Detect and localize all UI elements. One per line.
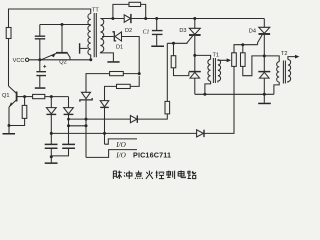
wire: Q1 emitter down — [8, 107, 10, 126]
transformer TT primary winding — [88, 14, 91, 60]
zener diode D1 — [102, 32, 139, 74]
resistor R7 — [165, 101, 170, 114]
svg-text:D3: D3 — [179, 28, 186, 34]
svg-text:PIC16C711: PIC16C711 — [133, 151, 171, 160]
ground (Q1 emitter) — [3, 133, 16, 135]
node: line1 dot — [85, 118, 88, 121]
capacitor C3 (electrolytic on VCC) — [36, 60, 46, 88]
capacitor C2 (Q2 base-emitter) — [35, 25, 45, 60]
transformer T1 primary — [208, 59, 211, 81]
node: main line left — [50, 132, 53, 135]
wire: emitter node to ground — [8, 126, 10, 134]
node: D4 gate resistor junction — [241, 43, 244, 46]
wire: TT secondary top to D2 anode rail — [100, 18, 124, 20]
transformer T2 secondary — [288, 60, 291, 83]
node: Q1 base junction — [23, 95, 26, 98]
node: T1 primary return — [203, 93, 206, 96]
thyristor D3 — [167, 19, 200, 72]
resistor R1 (top-left feedback) — [6, 28, 11, 39]
capacitor C5 — [51, 144, 75, 156]
wire: R2 to node A — [45, 96, 69, 98]
svg-text:T2: T2 — [281, 51, 288, 57]
ground (channel rail) — [258, 103, 271, 105]
wire: Q1 base line — [17, 96, 32, 98]
wire: D4 cathode to T2 primary top — [264, 56, 279, 62]
diode D10 — [197, 130, 204, 137]
node A: divider junction — [50, 95, 53, 98]
node: C1 top — [155, 17, 158, 20]
wire: T1 secondary output arrow — [218, 58, 231, 62]
wire: PIC main line — [51, 132, 196, 134]
zener diode D11 (D3 cathode) — [189, 72, 201, 95]
node: D2 anode — [111, 17, 114, 20]
caption: pulse ignition control circuit (CJK strokes) — [113, 170, 196, 178]
node: ground junction — [50, 155, 53, 158]
terminal: VCC input circle — [25, 58, 28, 61]
wire: anode rail D2 to D4 — [132, 18, 265, 20]
transformer T1 core — [213, 58, 215, 83]
resistor R2 (Q1 base series) — [33, 94, 45, 98]
node: Q2 base rail junction — [61, 23, 64, 26]
wire: T2 primary bottom return — [274, 82, 279, 94]
wire: channel rail — [195, 93, 274, 95]
resistor R6 — [105, 76, 140, 101]
node: Q1 emitter / R3 junction — [8, 124, 11, 127]
resistor R9 (D3 gate-cathode) — [171, 43, 189, 75]
capacitor C1 — [152, 19, 163, 46]
svg-text:VCC: VCC — [13, 58, 25, 64]
node: main line D6 — [103, 132, 106, 135]
wire: R8 top to D4 gate wire — [234, 45, 258, 53]
resistor R10 (D4 gate-cathode) — [241, 45, 265, 76]
node: D4 cathode — [263, 54, 266, 57]
diode D8 — [64, 97, 74, 144]
wire: Q2 base rail — [40, 24, 91, 26]
thyristor D4 — [258, 19, 271, 72]
transformer TT core — [94, 13, 96, 57]
svg-text:I/O: I/O — [115, 152, 126, 160]
node: line2 right — [85, 124, 88, 127]
node: line2 left — [67, 124, 70, 127]
wire: PIC line 2 short — [69, 125, 87, 127]
wire: D3 cathode to T1 primary top — [195, 55, 211, 59]
node: line1 start — [67, 118, 70, 121]
ground (C3) — [35, 87, 46, 89]
wire: R7 up to D3 gate — [166, 43, 168, 101]
node: R4 right — [144, 17, 147, 20]
resistor R8 (channel2 lower gate) — [232, 53, 237, 67]
node: VCC junction — [38, 58, 41, 61]
transformer TT secondary winding — [100, 19, 103, 53]
resistor R4 (parallel with D2) — [113, 2, 146, 18]
svg-text:Q1: Q1 — [2, 93, 9, 99]
node: TT primary bottom — [89, 58, 92, 61]
capacitor C4 — [45, 144, 58, 162]
diode D2 — [124, 14, 131, 23]
node: D1/R5/R6 junction — [138, 72, 141, 75]
transformer T2 core — [283, 61, 285, 84]
wire: PIC pin 2 — [86, 150, 137, 158]
svg-text:D2: D2 — [125, 28, 132, 34]
wire: D10 to channel2 gate riser — [205, 66, 235, 133]
transformer T2 primary — [277, 62, 280, 82]
wire: base junction down to R3 — [24, 97, 26, 106]
wire: PIC pin 1 — [105, 139, 138, 144]
wire: T2 secondary output arrow — [288, 55, 300, 60]
diode D7 — [46, 97, 56, 144]
zener diode D5 — [80, 92, 92, 157]
wire: T1 primary bottom return — [205, 81, 211, 94]
wire: PIC line 1 — [69, 118, 131, 120]
svg-text:D4: D4 — [249, 29, 256, 35]
svg-text:T1: T1 — [213, 53, 220, 59]
wire: VCC rail — [29, 59, 91, 61]
wire: R1 down to Q1 collector — [8, 39, 10, 87]
electrode bar on TT primary — [80, 43, 88, 54]
node: D3 anode — [193, 17, 196, 20]
node: D3 cathode — [193, 54, 196, 57]
svg-text:TT: TT — [92, 7, 99, 13]
svg-text:D1: D1 — [116, 44, 123, 50]
svg-text:I/O: I/O — [115, 141, 126, 149]
diode D6 — [100, 101, 109, 145]
wire: line1 to R7 — [138, 114, 168, 119]
ground (TT secondary) — [100, 52, 119, 63]
wire: top-left feedback rail — [9, 9, 91, 28]
resistor R3 (Q1 base pulldown) — [22, 105, 27, 118]
transformer T1 secondary — [218, 60, 221, 83]
zener diode D12 (D4 cathode) — [258, 72, 270, 103]
resistor R5 — [86, 72, 139, 93]
node: channel rail / ground junction — [263, 93, 266, 96]
transistor Q1 — [9, 86, 17, 107]
wire: R3 bottom to emitter node — [9, 118, 25, 125]
node: D3 gate resistor junction — [172, 42, 175, 45]
ground (C4/C5) — [45, 162, 58, 164]
diode D9 — [130, 115, 137, 122]
ground (C1) — [151, 46, 164, 48]
transistor Q2 — [41, 25, 70, 60]
svg-text:C1: C1 — [143, 30, 150, 36]
svg-text:Q2: Q2 — [59, 60, 66, 66]
